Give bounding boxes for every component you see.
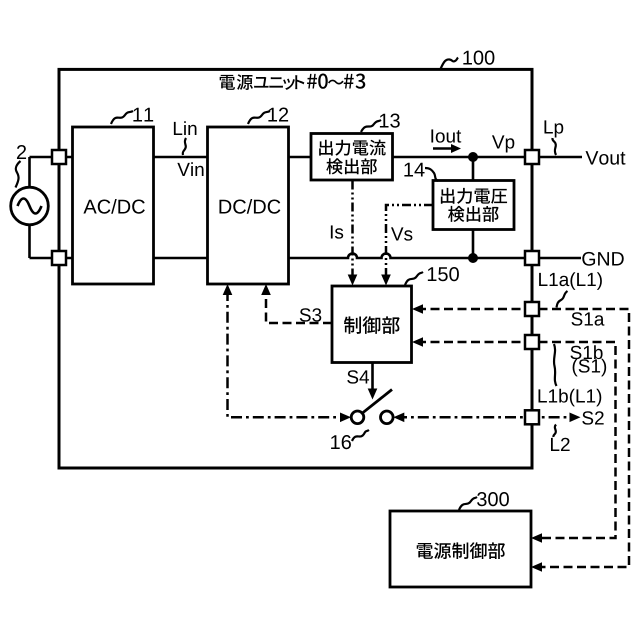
controller 150 [332,286,412,363]
label L1a(L1) [539,272,602,290]
dashed line: S1a from external to controller [417,309,629,567]
label S1b [570,345,602,359]
label Iout [431,129,461,142]
arrowhead: Vs into controller [381,275,391,286]
input terminal bottom-left [52,251,66,265]
label DC/DC [219,199,280,214]
label 2 [17,145,26,159]
leader squiggle to 14 (down-right) [425,168,438,181]
input terminal top-left [52,150,66,164]
arrowhead: S2 output [570,413,581,423]
dashed line: S1b from external to controller [417,342,616,538]
wire: GND stub [532,257,581,260]
label S3 [300,308,322,321]
wire: output voltage detector connector [472,157,475,258]
wire: Vout stub [532,156,582,159]
switch 16: left contact [351,411,364,424]
chain line: Vs signal from voltage detector to controller (dash-dot-dot) [386,205,433,279]
arrowhead: S4 onto switch blade [368,389,378,400]
label (S1) [573,359,607,377]
label 16 [331,435,351,449]
leader squiggle to Lin wire [183,138,186,155]
Iout flow arrow [433,147,452,150]
AC/DC converter 11 [73,127,154,284]
leader squiggle to 100 [441,58,459,70]
wire: S4 from controller to switch [371,363,374,392]
box14 text line2 検出部 [448,206,499,222]
label Vin [177,162,203,176]
arrowhead: into switch right contact [393,413,404,423]
label 100 [463,51,494,65]
arrowhead: S1a into controller [412,304,423,314]
label S1a [571,312,604,325]
label GND [582,252,623,266]
label 150 [428,267,459,281]
junction dot: Vp node [468,152,478,162]
leader squiggle to L2 [553,425,556,438]
label Lin [174,121,197,135]
label 13 [380,114,400,128]
Vout terminal Lp [525,150,539,164]
wire: GND rail with hops over Is and Vs lines [30,254,533,259]
label Vp [492,135,514,152]
box300 text 電源制御部 [417,542,505,559]
box13 text line1 出力電流 [319,140,385,156]
outer box: power supply unit 100 [59,69,532,468]
label 12 [268,108,288,122]
leader squiggle to 12 [248,111,270,124]
power supply controller 300 [390,511,531,587]
leader squiggle to 16 [352,430,369,441]
output current detector 13 [311,134,393,181]
switch 16: blade [362,390,392,414]
arrowhead: Iout direction [451,144,461,153]
box13 text line2 検出部 [326,158,377,174]
label S4 [347,370,369,383]
box150 text 制御部 [344,316,400,334]
label Is [331,225,343,238]
leader squiggle to L1a(L1) [557,291,568,308]
leader squiggle to 300 [459,497,477,510]
junction dot: GND node [468,253,478,263]
box14 text line1 出力電圧 [441,188,507,204]
dashed line: S3 control from controller to DC/DC [266,290,332,323]
label Vs [391,227,412,240]
terminal L2 [525,410,539,424]
arrowhead: S1b into controller [412,337,423,347]
label 14 [404,163,424,177]
label AC/DC [83,199,144,214]
chain line: control from DC/DC down to switch (dash-dot) [228,290,348,417]
label S2 [582,411,603,424]
arrowhead: Is into controller [348,275,358,286]
leader squiggle to S1b/(S1) [554,344,557,386]
title 電源ユニット#0～#3 [220,74,366,90]
GND terminal [525,251,539,265]
label Lp [544,120,563,137]
arrowhead: into power controller (lower) [531,562,542,572]
label L2 [551,438,570,451]
chain line: switch to S2 (dash-dot) [396,416,576,419]
AC source 2: circle [11,187,49,225]
label L1b(L1) [539,389,602,407]
label 11 [133,108,153,122]
terminal L1a [525,302,539,316]
arrowhead: into switch left contact [340,413,351,423]
label Vout [586,151,626,165]
leader squiggle to 150 [405,272,423,285]
leader squiggle to 11 [111,111,133,124]
arrowhead: into DC/DC bottom (left) [223,284,233,295]
arrowhead: into power controller (upper) [531,533,542,543]
arrowhead: S3 into DC/DC bottom [261,284,271,295]
wire: top rail (AC input / Lin / Vp line) [30,156,533,159]
chain line: Is signal from current detector to controller (dash-dot-dot) [351,181,354,280]
terminal L1b-S1b [525,335,539,349]
leader squiggle to 13 [361,120,381,132]
wire: AC source left vertical [28,157,31,258]
leader squiggle to Lp [552,138,556,155]
DC/DC converter 12 [208,127,289,284]
switch 16: right contact [381,411,394,424]
AC source 2: sine wave [18,199,42,214]
output voltage detector 14 [433,181,514,230]
label 300 [477,492,509,506]
leader squiggle to 2 [16,161,21,188]
